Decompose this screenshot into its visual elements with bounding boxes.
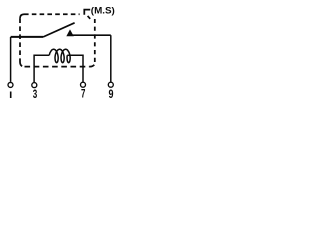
terminal pin 7	[81, 82, 86, 87]
terminal pin 9	[108, 82, 113, 87]
svg-text:(M.S): (M.S)	[91, 5, 115, 16]
connector step to label	[84, 10, 90, 15]
top-left rounded corner	[20, 14, 24, 18]
svg-text:3: 3	[33, 89, 38, 101]
wire: contact to pin 9	[70, 34, 111, 36]
terminal pin 1	[8, 82, 13, 87]
bottom-left rounded corner	[20, 62, 25, 67]
bottom-right rounded corner	[90, 62, 95, 67]
svg-text:7: 7	[81, 89, 85, 101]
top dashed edge	[24, 13, 80, 15]
slanted dash toward label	[88, 16, 91, 19]
relay coil	[49, 49, 70, 62]
relay enclosure (dashed box)	[20, 10, 95, 67]
left dashed edge	[19, 18, 21, 62]
bottom dashed edge	[25, 66, 90, 68]
terminal pin 3	[32, 83, 37, 88]
right dashed edge	[94, 19, 96, 62]
switch arm (movable contact)	[43, 23, 75, 37]
fixed contact triangle	[67, 30, 73, 36]
wire: pin 1 lead	[10, 37, 12, 82]
wire: coil right lead to pin 7	[67, 55, 83, 82]
background	[0, 0, 120, 102]
wire: switch common from pin 1	[11, 36, 43, 38]
pin label 1	[10, 92, 12, 99]
svg-text:9: 9	[109, 89, 114, 101]
wire: coil left lead from pin 3	[34, 55, 49, 82]
wire: pin 9 lead	[110, 35, 112, 82]
